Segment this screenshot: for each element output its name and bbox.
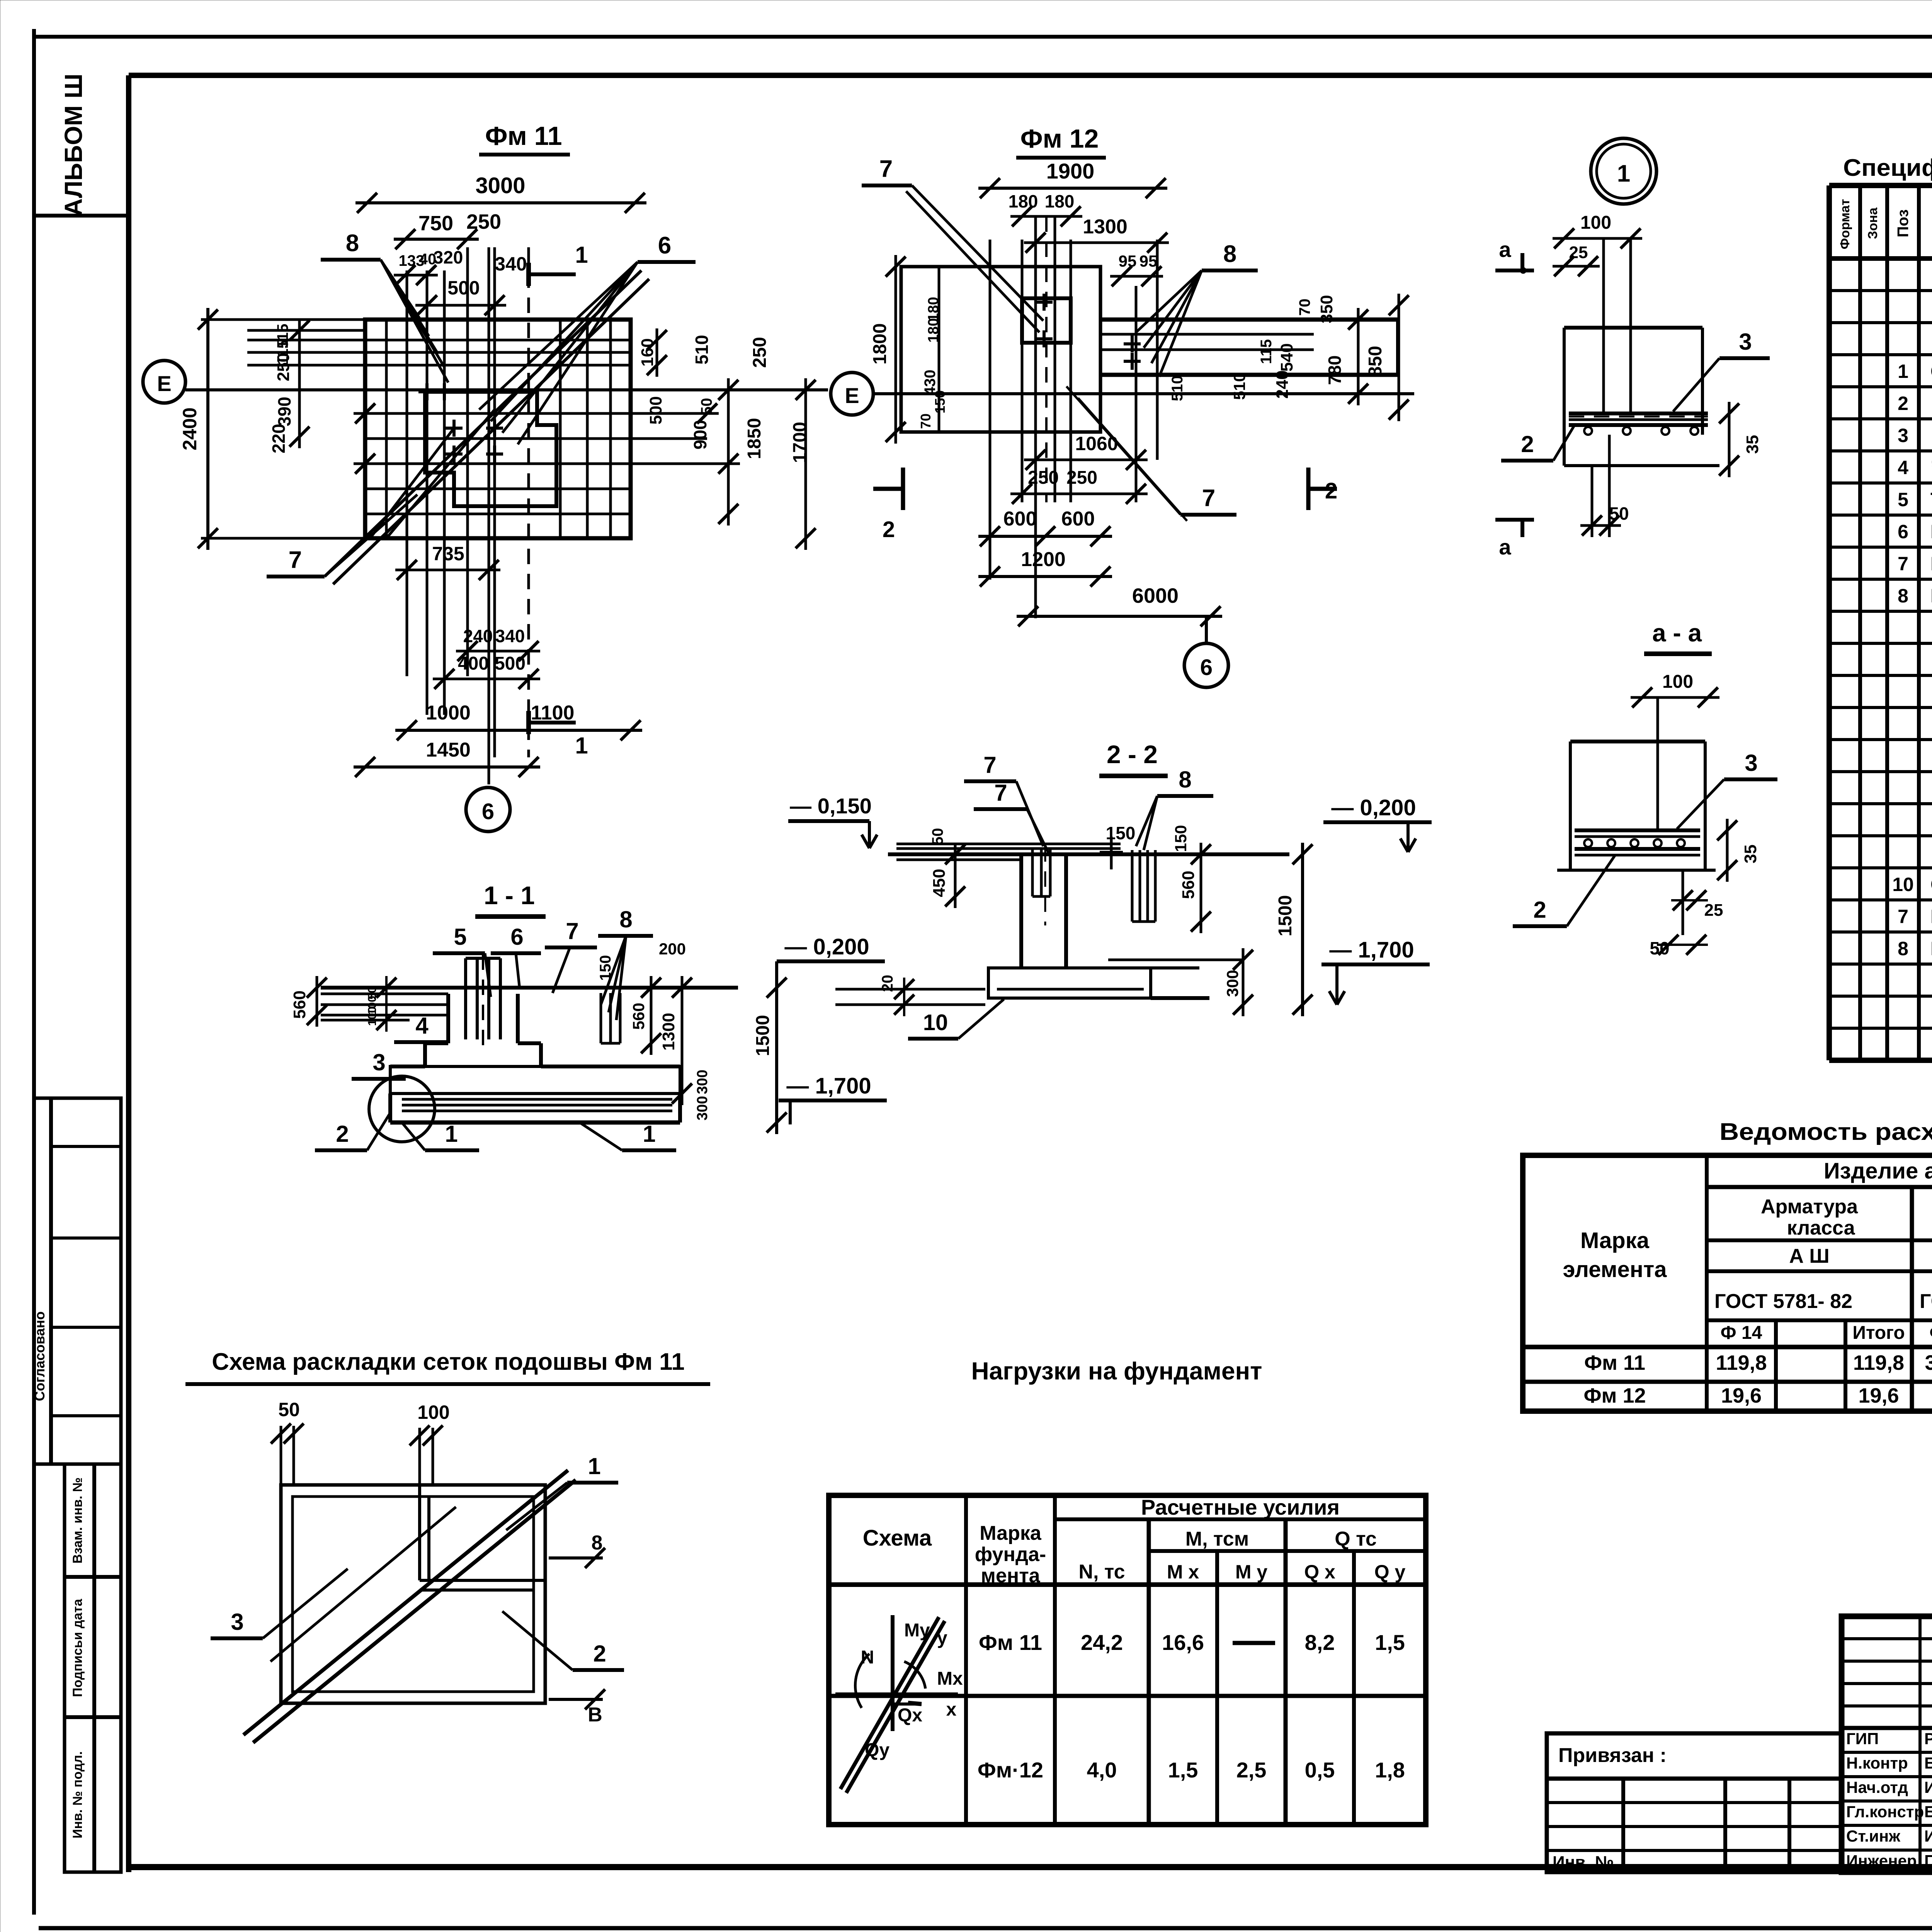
svg-text:ГОСТ 24379.1- 80: ГОСТ 24379.1- 80 <box>1930 906 1932 927</box>
svg-text:2 - 2: 2 - 2 <box>1107 740 1158 769</box>
svg-text:5: 5 <box>1898 489 1908 510</box>
svg-text:70: 70 <box>1296 299 1313 316</box>
svg-text:119,8: 119,8 <box>1716 1351 1767 1374</box>
svg-text:” 1.412 - 1 / 77 , Вып 3: ” 1.412 - 1 / 77 , Вып 3 <box>1930 457 1932 478</box>
svg-text:1 - 1: 1 - 1 <box>484 881 535 910</box>
svg-text:180: 180 <box>1009 191 1038 211</box>
svg-text:6: 6 <box>482 799 494 824</box>
svg-text:1700: 1700 <box>790 422 810 463</box>
svg-text:1: 1 <box>1617 160 1630 187</box>
svg-text:390: 390 <box>274 397 294 427</box>
svg-text:7: 7 <box>1898 906 1908 927</box>
svg-text:Арматура: Арматура <box>1761 1196 1858 1218</box>
svg-text:6: 6 <box>1898 521 1908 543</box>
svg-text:В: В <box>588 1704 602 1726</box>
svg-text:95: 95 <box>1119 252 1137 270</box>
svg-text:Схема раскладки сеток подо: Схема раскладки сеток подошвы Фм 11 <box>212 1349 684 1375</box>
svg-text:Ицелева: Ицелева <box>1924 1827 1932 1845</box>
svg-text:Е: Е <box>157 371 171 396</box>
svg-text:Бельковский: Бельковский <box>1924 1803 1932 1821</box>
svg-text:735: 735 <box>432 543 464 565</box>
svg-text:8: 8 <box>619 906 632 932</box>
svg-text:2: 2 <box>1898 393 1908 414</box>
svg-text:320: 320 <box>434 247 463 267</box>
svg-text:300: 300 <box>1223 970 1242 997</box>
svg-text:500: 500 <box>495 653 526 674</box>
svg-text:780: 780 <box>1325 355 1345 385</box>
svg-text:М х: М х <box>1167 1561 1199 1583</box>
svg-text:1: 1 <box>575 733 588 759</box>
svg-text:Ст.инж: Ст.инж <box>1846 1827 1901 1845</box>
svg-text:25: 25 <box>1704 901 1723 920</box>
svg-text:8: 8 <box>1179 767 1191 793</box>
svg-text:Итого: Итого <box>1852 1323 1905 1343</box>
svg-text:Согласовано: Согласовано <box>32 1311 48 1401</box>
svg-text:Q у: Q у <box>1374 1561 1406 1583</box>
svg-text:6: 6 <box>510 924 523 950</box>
svg-text:1100: 1100 <box>531 702 575 724</box>
svg-text:100: 100 <box>417 1401 449 1423</box>
svg-text:Серия 1.410 - 2 , Вып.1: Серия 1.410 - 2 , Вып.1 <box>1930 361 1932 382</box>
svg-text:7: 7 <box>1202 485 1215 512</box>
svg-text:Ведомость расхода стали: Ведомость расхода стали на элемент , кг. <box>1719 1119 1932 1145</box>
svg-text:400: 400 <box>458 653 489 674</box>
svg-text:2: 2 <box>1325 478 1337 503</box>
svg-text:560: 560 <box>290 990 309 1019</box>
svg-text:150: 150 <box>597 955 614 981</box>
svg-text:М у: М у <box>1235 1561 1268 1583</box>
svg-text:6000: 6000 <box>1132 584 1179 607</box>
svg-text:Формат: Формат <box>1838 199 1852 249</box>
svg-text:5: 5 <box>454 924 466 950</box>
svg-text:180: 180 <box>925 297 942 321</box>
svg-text:Q тс: Q тс <box>1335 1528 1377 1550</box>
svg-text:Поз: Поз <box>1895 209 1912 238</box>
svg-text:ГОСТ 24379.1- 80: ГОСТ 24379.1- 80 <box>1930 585 1932 607</box>
svg-text:ГОСТ 24379.1- 80: ГОСТ 24379.1- 80 <box>1930 938 1932 959</box>
svg-text:1300: 1300 <box>659 1013 678 1051</box>
svg-text:19,6: 19,6 <box>1721 1384 1762 1407</box>
svg-text:3: 3 <box>1745 750 1757 776</box>
svg-text:8: 8 <box>346 230 359 257</box>
svg-text:560: 560 <box>629 1003 648 1030</box>
svg-text:50: 50 <box>1650 938 1669 958</box>
svg-text:7: 7 <box>879 156 893 182</box>
svg-text:Q х: Q х <box>1304 1561 1335 1583</box>
svg-text:2,5: 2,5 <box>1236 1758 1267 1782</box>
svg-text:10: 10 <box>923 1010 948 1035</box>
svg-text:А Ш: А Ш <box>1789 1245 1829 1267</box>
svg-text:Нач.отд: Нач.отд <box>1846 1778 1908 1796</box>
svg-text:ГОСТ 5781- 82: ГОСТ 5781- 82 <box>1714 1290 1852 1313</box>
svg-text:240: 240 <box>463 626 493 646</box>
svg-text:Ф 8: Ф 8 <box>1930 1323 1932 1343</box>
svg-text:Изделие арматурное: Изделие арматурное <box>1824 1158 1932 1184</box>
svg-text:6: 6 <box>658 232 671 259</box>
svg-text:а: а <box>1499 535 1511 559</box>
svg-text:1: 1 <box>643 1121 655 1147</box>
svg-text:500: 500 <box>447 277 480 299</box>
svg-text:2: 2 <box>336 1121 349 1147</box>
svg-text:1900: 1900 <box>1046 159 1095 183</box>
svg-text:35: 35 <box>1743 435 1762 454</box>
svg-text:8,2: 8,2 <box>1305 1630 1335 1655</box>
svg-text:7: 7 <box>1898 553 1908 575</box>
svg-text:7: 7 <box>289 547 302 573</box>
svg-text:50: 50 <box>1609 503 1629 524</box>
svg-text:1060: 1060 <box>1075 433 1118 454</box>
svg-text:1: 1 <box>575 242 588 268</box>
svg-text:Зона: Зона <box>1866 207 1880 239</box>
svg-text:— 0,200: — 0,200 <box>784 934 869 959</box>
svg-text:510: 510 <box>1230 373 1248 400</box>
svg-text:Фм 11: Фм 11 <box>1584 1351 1645 1374</box>
svg-text:Инв. № подл.: Инв. № подл. <box>70 1751 85 1838</box>
svg-text:510: 510 <box>1169 376 1186 401</box>
svg-text:1850: 1850 <box>744 418 765 459</box>
svg-text:900: 900 <box>690 420 710 450</box>
svg-text:24,2: 24,2 <box>1081 1630 1123 1655</box>
svg-text:8: 8 <box>1223 241 1236 267</box>
svg-text:Инв. №: Инв. № <box>1553 1853 1614 1872</box>
svg-text:100: 100 <box>1580 213 1611 233</box>
svg-text:0,5: 0,5 <box>1305 1758 1335 1782</box>
svg-text:1450: 1450 <box>426 739 471 761</box>
svg-text:2: 2 <box>883 517 895 542</box>
svg-text:1500: 1500 <box>753 1015 773 1056</box>
svg-text:25: 25 <box>1569 243 1588 262</box>
svg-text:фунда-: фунда- <box>975 1543 1046 1566</box>
svg-text:10: 10 <box>1892 874 1914 895</box>
svg-text:8: 8 <box>1898 585 1908 607</box>
svg-text:2400: 2400 <box>179 407 201 450</box>
svg-text:класса: класса <box>1787 1217 1855 1239</box>
svg-text:Привязан :: Привязан : <box>1558 1744 1667 1767</box>
svg-text:115: 115 <box>1258 339 1275 364</box>
svg-text:АЛЬБОМ Ш: АЛЬБОМ Ш <box>60 73 87 216</box>
svg-text:119,8: 119,8 <box>1853 1351 1904 1374</box>
svg-text:500: 500 <box>646 396 665 424</box>
svg-text:Марка: Марка <box>980 1522 1042 1544</box>
svg-text:450: 450 <box>930 869 949 897</box>
svg-text:2: 2 <box>1533 897 1546 923</box>
svg-text:М, тсм: М, тсм <box>1185 1528 1249 1550</box>
svg-text:а - а: а - а <box>1652 619 1702 647</box>
svg-text:Е: Е <box>845 383 859 408</box>
svg-text:Гл.констр: Гл.констр <box>1846 1803 1924 1821</box>
svg-text:19,6: 19,6 <box>1858 1384 1899 1407</box>
svg-text:Бельковский: Бельковский <box>1924 1754 1932 1772</box>
svg-text:— 1,700: — 1,700 <box>1329 937 1414 963</box>
svg-text:510: 510 <box>692 335 712 365</box>
svg-text:50: 50 <box>929 828 946 845</box>
svg-text:8: 8 <box>1898 938 1908 959</box>
svg-text:100: 100 <box>1662 672 1693 692</box>
svg-text:600: 600 <box>1061 508 1095 530</box>
svg-text:6: 6 <box>1200 655 1213 680</box>
svg-text:7: 7 <box>994 780 1007 806</box>
svg-text:ГОСТ 24379.1- 80: ГОСТ 24379.1- 80 <box>1930 553 1932 575</box>
svg-text:Спецификация фундаментов: Спецификация фундаментов Фм 11, Фм 12 <box>1843 155 1932 181</box>
svg-text:180: 180 <box>1045 191 1075 211</box>
svg-text:1300: 1300 <box>1083 216 1128 238</box>
svg-text:4: 4 <box>415 1013 429 1039</box>
svg-text:3: 3 <box>1898 425 1908 446</box>
svg-text:250: 250 <box>274 353 293 381</box>
svg-text:16,6: 16,6 <box>1162 1630 1204 1655</box>
svg-text:ГИП: ГИП <box>1846 1730 1879 1748</box>
svg-text:1: 1 <box>1898 361 1908 382</box>
svg-text:35: 35 <box>1741 845 1760 864</box>
svg-text:300: 300 <box>694 1070 711 1094</box>
svg-text:1800: 1800 <box>870 323 890 365</box>
svg-text:— 0,200: — 0,200 <box>1331 795 1416 820</box>
svg-text:4: 4 <box>1898 457 1908 478</box>
svg-text:30,7: 30,7 <box>1925 1351 1932 1374</box>
svg-text:70: 70 <box>918 413 934 429</box>
svg-text:180: 180 <box>925 318 942 342</box>
svg-text:750: 750 <box>418 212 453 235</box>
svg-text:1,5: 1,5 <box>1168 1758 1198 1782</box>
svg-text:200: 200 <box>659 940 686 958</box>
svg-text:2: 2 <box>593 1641 606 1667</box>
svg-text:850: 850 <box>1365 346 1386 377</box>
svg-text:Марка: Марка <box>1580 1228 1650 1253</box>
svg-text:Расчетные усилия: Расчетные усилия <box>1141 1495 1340 1519</box>
svg-text:1500: 1500 <box>1275 895 1296 937</box>
svg-text:160: 160 <box>638 338 657 366</box>
svg-text:340: 340 <box>495 626 525 646</box>
svg-text:3: 3 <box>231 1609 243 1635</box>
svg-text:Схема: Схема <box>863 1526 932 1551</box>
svg-text:3: 3 <box>372 1049 385 1075</box>
svg-text:у: у <box>937 1628 947 1648</box>
svg-text:Н.контр: Н.контр <box>1846 1754 1908 1772</box>
svg-text:1: 1 <box>445 1121 457 1147</box>
svg-text:N, тс: N, тс <box>1078 1561 1125 1583</box>
svg-text:340: 340 <box>495 253 527 275</box>
svg-text:Иванов: Иванов <box>1924 1778 1932 1796</box>
svg-text:560: 560 <box>1179 871 1198 899</box>
svg-text:150: 150 <box>932 390 948 413</box>
svg-text:3000: 3000 <box>475 173 525 198</box>
svg-text:Фм 12: Фм 12 <box>1583 1384 1646 1407</box>
svg-text:220: 220 <box>269 424 289 454</box>
svg-text:— 1,700: — 1,700 <box>786 1073 871 1099</box>
svg-text:1,8: 1,8 <box>1375 1758 1405 1782</box>
svg-text:Фм 12: Фм 12 <box>1020 124 1099 153</box>
svg-text:ГОСТ 24379 1- 80: ГОСТ 24379 1- 80 <box>1930 521 1932 543</box>
svg-text:300: 300 <box>694 1096 711 1120</box>
svg-text:350: 350 <box>1317 295 1336 323</box>
svg-text:250: 250 <box>750 337 770 368</box>
svg-text:100: 100 <box>366 1007 379 1026</box>
svg-text:1000: 1000 <box>426 702 471 724</box>
svg-text:250: 250 <box>1028 468 1059 488</box>
svg-text:600: 600 <box>1003 508 1037 530</box>
svg-text:Подписьи дата: Подписьи дата <box>70 1599 85 1697</box>
svg-text:4,0: 4,0 <box>1087 1758 1117 1782</box>
svg-text:540: 540 <box>1277 343 1296 371</box>
svg-text:Серия 1.410 - 2. Вып.1: Серия 1.410 - 2. Вып.1 <box>1930 874 1932 895</box>
svg-text:Му: Му <box>904 1620 930 1641</box>
svg-text:Qу: Qу <box>865 1740 889 1760</box>
svg-text:95: 95 <box>1139 252 1158 270</box>
svg-text:1: 1 <box>588 1453 600 1479</box>
svg-text:50: 50 <box>278 1399 300 1420</box>
svg-text:7: 7 <box>983 752 996 778</box>
svg-text:— 0,150: — 0,150 <box>790 794 872 818</box>
svg-text:Фм 11: Фм 11 <box>485 121 562 151</box>
svg-text:Инженер: Инженер <box>1846 1852 1917 1870</box>
svg-text:Фм 11: Фм 11 <box>979 1630 1042 1655</box>
svg-text:ТП 503-4-38.86 -КЖИ- С1: ТП 503-4-38.86 -КЖИ- С1 <box>1930 489 1932 510</box>
svg-text:Ф 14: Ф 14 <box>1721 1323 1762 1343</box>
svg-text:240: 240 <box>1273 370 1292 398</box>
svg-text:Взам. инв. №: Взам. инв. № <box>70 1477 85 1563</box>
svg-text:250: 250 <box>1066 468 1097 488</box>
svg-text:мента: мента <box>981 1565 1040 1587</box>
svg-text:Пиворова: Пиворова <box>1924 1852 1932 1870</box>
svg-text:Нагрузки на фундамент: Нагрузки на фундамент <box>971 1357 1262 1385</box>
svg-text:Фм·12: Фм·12 <box>978 1758 1043 1782</box>
svg-text:Рыскин ·: Рыскин · <box>1924 1730 1932 1748</box>
svg-text:ГОСТ 5781- 82: ГОСТ 5781- 82 <box>1920 1290 1932 1313</box>
svg-text:элемента: элемента <box>1563 1257 1667 1282</box>
svg-text:150: 150 <box>1172 825 1190 852</box>
svg-text:1200: 1200 <box>1021 548 1066 571</box>
svg-text:а: а <box>1499 237 1511 262</box>
svg-text:3: 3 <box>1739 329 1752 355</box>
svg-text:2: 2 <box>1521 431 1534 457</box>
svg-text:7: 7 <box>566 918 578 944</box>
svg-text:Мх: Мх <box>937 1668 963 1689</box>
svg-text:1,5: 1,5 <box>1375 1630 1405 1655</box>
svg-text:х: х <box>946 1699 957 1720</box>
svg-text:250: 250 <box>466 210 501 233</box>
svg-text:Qх: Qх <box>898 1705 922 1726</box>
